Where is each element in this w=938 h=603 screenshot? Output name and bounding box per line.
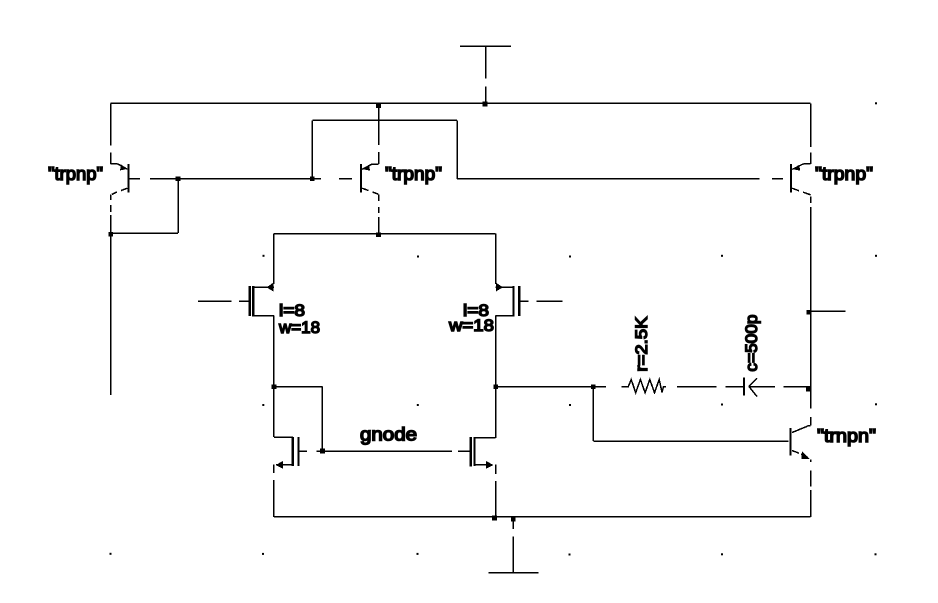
capacitor C1 [744, 378, 775, 397]
svg-text:"trpnp": "trpnp" [815, 164, 873, 184]
wire right source down [492, 465, 497, 521]
ground symbol [488, 517, 538, 573]
transistor Q2 trpnp middle [361, 164, 379, 194]
wire output column upper [810, 197, 812, 387]
label Q4 "trnpn" [817, 426, 876, 446]
vdd power symbol [460, 46, 511, 106]
wire right emitter drop [810, 103, 812, 164]
wire right drain column [493, 316, 498, 438]
wire left emitter drop [110, 103, 112, 164]
label R1 r=2.5K [632, 316, 651, 372]
wire middle emitter drop [376, 103, 381, 164]
wire pmos source rail [274, 234, 496, 284]
svg-text:c=500p: c=500p [742, 315, 761, 372]
wire npn collector drop [810, 387, 812, 426]
label C1 c=500p [742, 315, 761, 372]
label Q2 "trpnp" [385, 164, 442, 184]
label M1 l=8 [279, 301, 305, 320]
wire left drain column [272, 316, 277, 438]
wire gnode net [322, 450, 470, 452]
wire left node to gnode [274, 387, 325, 454]
wire npn emitter down [810, 460, 812, 517]
transistor M2 pmos right [496, 283, 563, 317]
label Q1 "trpnp" [48, 164, 103, 184]
wire npn base branch [593, 387, 788, 441]
transistor Q1 trpnp left (diode connected) [111, 164, 129, 212]
wire middle collector down [376, 194, 381, 237]
wire output stub [807, 310, 846, 315]
wire R to C [677, 386, 744, 388]
svg-text:w=18: w=18 [278, 318, 320, 337]
label M1 w=18 [278, 318, 320, 337]
label gnode [360, 425, 417, 445]
wire mirror loop rail [310, 120, 457, 181]
svg-text:"trnpn": "trnpn" [817, 426, 876, 446]
svg-text:"trpnp": "trpnp" [385, 164, 442, 184]
wire bottom rail [274, 516, 811, 518]
label M2 l=8 [463, 301, 489, 320]
transistor M1 pmos left [198, 283, 274, 317]
svg-text:w=18: w=18 [448, 316, 494, 335]
wire left collector down stub [110, 215, 112, 395]
wire Q1 diode connection [108, 179, 178, 237]
label M2 w=18 [448, 316, 494, 335]
label Q3 "trpnp" [815, 164, 873, 184]
wire top supply rail [111, 102, 811, 104]
wire base bus right [457, 178, 783, 180]
node dot base-collector tie [176, 177, 181, 182]
wire left source down [273, 465, 275, 517]
wire base bus left (Q1 base to node) [129, 178, 353, 180]
transistor Q3 trpnp right [791, 164, 811, 195]
transistor Q4 trnpn [791, 426, 811, 460]
svg-text:r=2.5K: r=2.5K [632, 316, 651, 372]
svg-text:gnode: gnode [360, 425, 417, 445]
wire C to output node [783, 387, 810, 392]
svg-text:"trpnp": "trpnp" [48, 164, 103, 184]
grid dots [110, 102, 878, 555]
transistor M3 nmos left [274, 437, 323, 469]
transistor M4 nmos right [471, 437, 496, 469]
wire second stage node [496, 384, 627, 389]
resistor R1 [627, 380, 666, 393]
